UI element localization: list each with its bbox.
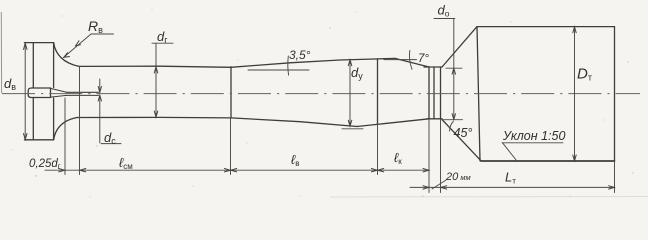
scan artifact left edge	[0, 12, 2, 93]
arrow d_g top	[154, 67, 158, 73]
box right edge	[614, 27, 616, 161]
ext line 0.25dg left	[64, 98, 66, 175]
arrow l_k left	[378, 169, 384, 172]
contraction top wall 7deg	[395, 58, 429, 67]
flange left edge	[32, 43, 34, 140]
dim d_o shelf	[434, 18, 455, 20]
20mm label leader	[432, 180, 446, 189]
arrow R_b leader end	[64, 53, 70, 58]
arrow L_t right	[609, 186, 615, 189]
arrow d_g bottom	[154, 111, 158, 117]
box top edge	[477, 26, 615, 28]
angle 45 ref line	[442, 119, 463, 121]
probe taper top	[51, 88, 67, 92]
angle 7 arc tick	[409, 51, 412, 70]
dim line l_v	[231, 169, 378, 171]
tube bottom wall	[77, 116, 231, 119]
centerline	[2, 93, 640, 95]
angle 7 ref line	[384, 59, 417, 61]
dim d_g vertical line	[155, 43, 157, 117]
dim line 20mm stub	[410, 186, 429, 188]
throat joint line 2	[433, 67, 435, 119]
arrow d_c up	[98, 95, 101, 101]
arrow R_b mid chevron	[76, 41, 81, 46]
joint at end of expansion	[377, 59, 379, 125]
dim d_c upper leader	[99, 79, 101, 92]
ext line at 230.5	[230, 118, 232, 175]
diffuser top diagonal	[442, 27, 477, 67]
ext line at 614.5 below	[614, 161, 616, 193]
dim d_o vertical line	[453, 19, 455, 120]
dim d_y vertical line	[349, 60, 351, 127]
arrow d_y top	[348, 60, 352, 66]
ext line at 429 below	[428, 119, 430, 193]
throat joint line 3	[440, 67, 442, 119]
arrow D_t bottom	[573, 155, 576, 161]
svg-text:0,25dг: 0,25dг	[29, 158, 61, 171]
ext line at 377.5	[377, 125, 379, 175]
arrow l_v left	[231, 169, 237, 172]
flange top edge	[25, 42, 54, 44]
R_b leader diagonal	[64, 34, 92, 58]
arrow l_sm right	[224, 169, 230, 172]
arrowheads	[24, 27, 615, 189]
box left edge	[477, 27, 480, 161]
arrow l_k right	[423, 169, 429, 172]
box bottom edge	[481, 160, 615, 162]
angle 45 arc	[450, 122, 454, 132]
flange bottom edge	[25, 139, 54, 141]
uklon underline	[502, 142, 563, 144]
arrow d_c down	[98, 87, 101, 93]
svg-text:7°: 7°	[418, 53, 429, 65]
tube top wall	[79, 66, 231, 67]
throat joint line 1	[428, 67, 430, 119]
d_c underline	[101, 143, 121, 145]
bottom dim line row1: stub for 0.25dg	[45, 169, 65, 171]
d_y tick below	[342, 128, 363, 130]
contraction bottom wall	[357, 119, 429, 127]
svg-text:3,5°: 3,5°	[289, 48, 311, 62]
ext line at 440.5 below	[440, 119, 442, 193]
d_o top tick / throat top extension	[446, 67, 462, 69]
thin nozzle tube top	[67, 91, 99, 93]
probe body outline	[28, 88, 50, 98]
arrow d_y bottom	[348, 120, 352, 126]
expansion top wall 3.5deg	[231, 58, 395, 67]
R_b leader shelf	[91, 33, 114, 35]
arrow d_o top	[452, 68, 455, 74]
dim line l_k	[378, 169, 430, 171]
dim d_b vertical line	[24, 43, 26, 140]
thin nozzle tube bottom	[67, 94, 99, 96]
arrow d_b bottom	[24, 134, 28, 140]
arrow 20mm stub (points right)	[423, 186, 429, 189]
dim line L_t	[441, 186, 615, 188]
arrow d_o bottom	[452, 114, 455, 120]
arrow d_b top	[24, 43, 28, 49]
throat top wall	[424, 66, 442, 68]
joint at end of tube	[230, 67, 232, 118]
scan streak bottom right	[330, 196, 648, 199]
flange right edge	[53, 43, 55, 140]
chamfer 45deg diagonal	[442, 120, 481, 161]
dim D_t vertical line	[574, 27, 576, 161]
arrow L_t left	[441, 186, 447, 189]
svg-text:20 мм: 20 мм	[445, 171, 471, 183]
uklon leader	[503, 143, 517, 161]
arrow l_v right	[371, 169, 377, 172]
paper speckles	[12, 10, 634, 198]
arrow 0.25dg stub (points right)	[59, 169, 65, 172]
arrow D_t top	[573, 27, 576, 33]
fillet bottom	[54, 118, 77, 140]
expansion bottom wall	[231, 118, 357, 127]
dim line l_sm	[80, 169, 231, 171]
dim line 0.25dg gap	[65, 169, 80, 171]
ext line tube start	[79, 67, 81, 175]
svg-text:Уклон 1:50: Уклон 1:50	[502, 129, 565, 143]
throat bottom wall	[427, 118, 442, 120]
svg-text:45°: 45°	[454, 126, 473, 140]
arrow l_sm left	[80, 169, 86, 172]
dim line 20mm gap	[429, 186, 441, 188]
angle 3.5 ref line	[248, 69, 309, 71]
dim d_g shelf	[152, 42, 173, 44]
fillet top R_b	[54, 43, 79, 67]
probe taper bottom	[51, 95, 67, 97]
dim d_c lower leader	[99, 95, 101, 143]
angle 3.5 arc tick	[287, 56, 290, 75]
